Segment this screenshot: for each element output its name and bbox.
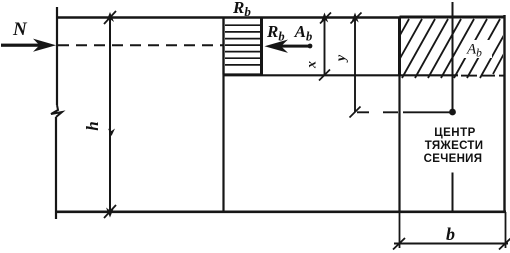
stress block rectangle <box>224 18 262 76</box>
extension line left for b <box>399 212 401 248</box>
stress block horizontal hatching <box>225 25 260 65</box>
horizontal line at bottom of compressed zone <box>224 74 505 76</box>
dimension b left slash arrow <box>393 238 405 250</box>
top edge of section <box>56 16 400 19</box>
dimension y top arrow <box>351 13 362 24</box>
dimension y bottom arrow <box>350 107 361 118</box>
dimension y line <box>354 18 356 113</box>
svg-text:b: b <box>446 224 455 244</box>
wire vertical at compressed zone boundary <box>222 18 224 213</box>
dimension h mid arrow tick <box>108 129 115 137</box>
resultant Rb·Ab arrow <box>265 40 313 53</box>
dimension b line <box>394 243 508 245</box>
wire right edge of section <box>503 15 505 212</box>
dimension x line <box>324 18 326 76</box>
centroid vertical axis line (lower) <box>452 173 454 212</box>
svg-text:ТЯЖЕСТИ: ТЯЖЕСТИ <box>425 140 484 152</box>
section left edge with break <box>51 7 62 219</box>
svg-text:СЕЧЕНИЯ: СЕЧЕНИЯ <box>424 153 483 165</box>
dimension b right slash arrow <box>499 238 510 250</box>
dimension x top arrow <box>320 13 331 24</box>
svg-text:N: N <box>12 19 28 40</box>
dimension x bottom arrow <box>319 70 330 81</box>
svg-text:x: x <box>305 61 320 69</box>
centroid vertical axis line (upper) <box>452 2 454 110</box>
dashed leader to centroid <box>357 111 450 113</box>
force N arrow <box>1 39 56 52</box>
Ab label <box>464 40 492 60</box>
centroid dot <box>449 109 456 116</box>
dashed action line of N <box>58 44 223 46</box>
dimension h top arrow <box>104 11 116 24</box>
svg-text:h: h <box>83 121 102 130</box>
svg-text:ЦЕНТР: ЦЕНТР <box>434 127 476 139</box>
dimension h line <box>109 18 111 212</box>
dimension h bottom arrow <box>104 205 116 218</box>
compressed area Ab rectangle <box>400 17 505 75</box>
extension line right for b <box>505 212 507 248</box>
centroid text <box>424 127 484 165</box>
bottom edge of section <box>56 211 506 214</box>
wire vertical at plan-view left edge <box>398 18 400 213</box>
svg-text:y: y <box>334 54 349 63</box>
diagonal hatching of Ab <box>376 19 510 78</box>
